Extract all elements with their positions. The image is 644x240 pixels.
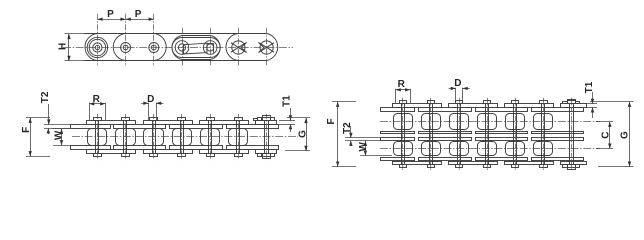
duplex end link spring clip top bbox=[568, 100, 576, 104]
dimension G single chain bbox=[287, 117, 310, 119]
svg-text:W: W bbox=[54, 130, 65, 140]
duplex pin 2 bbox=[430, 98, 432, 171]
duplex roller strand2 6 bbox=[534, 142, 553, 156]
duplex bottom outer plate 1 bbox=[393, 162, 442, 165]
dimension T2 single chain bbox=[44, 124, 88, 126]
single chain bottom inner plate 4 bbox=[227, 146, 279, 150]
svg-text:C: C bbox=[600, 131, 611, 138]
svg-text:H: H bbox=[58, 43, 69, 50]
dimension P (pitch) bbox=[97, 19, 153, 21]
duplex bottom outer plate 2 bbox=[449, 162, 498, 165]
duplex top outer plate 1 bbox=[393, 104, 442, 108]
single chain bottom inner plate 2 bbox=[114, 146, 166, 150]
duplex top outer plate 2 bbox=[449, 104, 498, 108]
single chain pin 3 bbox=[153, 114, 155, 160]
single chain roller 2 bbox=[116, 129, 136, 146]
dimension W single chain bbox=[53, 128, 89, 130]
duplex top inner plate 4 bbox=[532, 108, 584, 112]
dimension C duplex bbox=[596, 121, 613, 123]
single chain pin 7 bbox=[266, 114, 268, 160]
single chain bottom outer plate 3 bbox=[200, 150, 249, 154]
cotter pin 7 with X mark bbox=[260, 41, 273, 54]
spring clip end slot bbox=[207, 43, 214, 45]
single chain top inner plate 3 bbox=[170, 125, 223, 129]
single chain top inner plate 4 bbox=[227, 125, 279, 129]
dimension W duplex bbox=[360, 155, 392, 157]
duplex bottom inner plate 3 bbox=[476, 158, 528, 161]
connecting link pin 5 bbox=[203, 41, 217, 55]
duplex top outer plate 4 bbox=[561, 104, 587, 108]
duplex roller strand2 1 bbox=[394, 142, 413, 156]
duplex roller strand2 5 bbox=[506, 142, 525, 156]
single chain bottom inner plate 3 bbox=[170, 146, 223, 150]
svg-text:G: G bbox=[620, 131, 631, 139]
dimension D duplex bbox=[455, 88, 457, 104]
dimension T1 single chain bbox=[279, 120, 295, 122]
dimension H (plate height) bbox=[65, 33, 86, 35]
inner link cap arc right of pin 3 bbox=[154, 34, 166, 61]
duplex roller strand1 4 bbox=[478, 114, 497, 130]
duplex middle plate upper 1 bbox=[381, 132, 415, 134]
single chain roller 4 bbox=[173, 129, 192, 146]
connecting link inner outline bbox=[172, 38, 220, 58]
svg-text:P: P bbox=[135, 9, 142, 20]
top chain horizontal centerline bbox=[63, 47, 293, 49]
duplex middle plate lower 4 bbox=[532, 138, 584, 141]
duplex strand 2 centerline bbox=[380, 148, 600, 150]
single chain bottom outer plate 4 bbox=[256, 150, 277, 154]
duplex top inner plate 3 bbox=[476, 108, 528, 112]
duplex bottom inner plate 4 bbox=[532, 158, 584, 161]
duplex middle plate upper 3 bbox=[476, 132, 528, 134]
single chain pin 1 bbox=[97, 114, 99, 160]
svg-text:R: R bbox=[398, 79, 406, 90]
single chain pin 4 bbox=[181, 114, 183, 160]
dimension R single chain bbox=[89, 103, 91, 121]
duplex roller strand1 3 bbox=[450, 114, 469, 130]
single chain top inner plate 1 bbox=[71, 125, 111, 129]
duplex bottom inner plate 1 bbox=[381, 158, 415, 161]
svg-text:T1: T1 bbox=[282, 95, 293, 107]
svg-text:T2: T2 bbox=[342, 122, 353, 134]
svg-text:T2: T2 bbox=[40, 91, 51, 103]
duplex bottom outer plate 3 bbox=[505, 162, 554, 165]
svg-text:F: F bbox=[21, 127, 32, 133]
inner link cap arc left of pin 2 bbox=[113, 34, 125, 61]
duplex strand 1 centerline bbox=[380, 121, 600, 123]
connecting link outer plate stadium pins 4-5 bbox=[172, 36, 220, 60]
top chain pin 2 centerline bbox=[125, 14, 127, 67]
spring clip plate bbox=[184, 43, 208, 54]
single chain bottom outer plate 1 bbox=[87, 150, 136, 154]
svg-text:R: R bbox=[93, 94, 101, 105]
single chain roller 6 bbox=[229, 129, 248, 146]
roller at pin 1 bbox=[87, 37, 107, 57]
svg-text:D: D bbox=[147, 94, 154, 105]
duplex roller strand1 1 bbox=[394, 114, 413, 130]
duplex top inner plate 2 bbox=[419, 108, 472, 112]
duplex bottom inner plate 2 bbox=[419, 158, 472, 161]
duplex roller strand1 6 bbox=[534, 114, 553, 130]
svg-text:W: W bbox=[358, 142, 369, 152]
duplex middle plate upper 2 bbox=[419, 132, 472, 134]
dimension F single chain bbox=[26, 117, 50, 119]
svg-text:D: D bbox=[454, 78, 461, 89]
top chain pin 4 centerline bbox=[182, 28, 184, 67]
top chain pin 6 centerline bbox=[238, 28, 240, 67]
duplex pin 4 bbox=[487, 98, 489, 171]
dimension R duplex bbox=[395, 89, 397, 104]
duplex pin 5 bbox=[515, 98, 517, 171]
single chain roller 5 bbox=[201, 129, 220, 146]
single chain top outer plate 2 bbox=[144, 121, 193, 125]
left end cap arc at pin 1 bbox=[85, 34, 97, 61]
duplex middle plate lower 2 bbox=[419, 138, 472, 141]
top chain pin 1 centerline bbox=[97, 14, 99, 67]
single chain pin 6 bbox=[238, 114, 240, 160]
dimension T1 duplex bbox=[581, 103, 597, 105]
single chain end link spring clip top bbox=[263, 116, 271, 121]
cottered link cap arc left of pin 6 bbox=[226, 34, 238, 61]
chain band bottom edge bbox=[84, 60, 267, 62]
duplex roller strand2 3 bbox=[450, 142, 469, 156]
svg-text:F: F bbox=[326, 118, 337, 124]
duplex pin 7 bbox=[571, 98, 573, 171]
duplex pin 3 bbox=[459, 98, 461, 171]
duplex roller strand1 5 bbox=[506, 114, 525, 130]
top chain pin 5 centerline bbox=[210, 28, 212, 67]
duplex bottom outer plate 4 bbox=[561, 162, 587, 165]
single chain top outer plate 4 bbox=[256, 121, 277, 125]
dimension D single chain bbox=[148, 103, 150, 120]
duplex middle plate lower 3 bbox=[476, 138, 528, 141]
pin 2 bbox=[121, 43, 131, 53]
single chain pin 5 bbox=[210, 114, 212, 160]
svg-text:P: P bbox=[107, 9, 114, 20]
duplex roller strand1 2 bbox=[422, 114, 441, 130]
single chain pin 2 bbox=[125, 114, 127, 160]
single chain top inner plate 2 bbox=[114, 125, 166, 129]
dimension T2 duplex bbox=[345, 137, 392, 139]
single chain centerline bbox=[72, 136, 298, 138]
top chain pin 3 centerline bbox=[153, 14, 155, 67]
pin 3 bbox=[149, 43, 159, 53]
svg-text:G: G bbox=[297, 130, 308, 138]
duplex roller strand2 2 bbox=[422, 142, 441, 156]
top chain pin 7 centerline bbox=[266, 28, 268, 67]
dimension G duplex bbox=[590, 101, 634, 103]
single chain bottom inner plate 1 bbox=[71, 146, 111, 150]
chain band top edge bbox=[84, 33, 267, 35]
duplex middle plate upper 4 bbox=[532, 132, 584, 134]
single chain bottom outer plate 2 bbox=[144, 150, 193, 154]
duplex pin 6 bbox=[543, 98, 545, 171]
duplex top inner plate 1 bbox=[381, 108, 415, 112]
dimension F duplex bbox=[332, 101, 356, 103]
single chain end link spring clip bottom bbox=[263, 154, 271, 159]
duplex pin 1 bbox=[402, 98, 404, 171]
single chain top outer plate 1 bbox=[87, 121, 136, 125]
single chain top outer plate 3 bbox=[200, 121, 249, 125]
duplex end link spring clip bottom bbox=[568, 165, 576, 170]
duplex roller strand2 4 bbox=[478, 142, 497, 156]
duplex top outer plate 3 bbox=[505, 104, 554, 108]
duplex middle plate lower 1 bbox=[381, 138, 415, 141]
single chain roller 1 bbox=[88, 129, 107, 146]
cotter pin 6 with X mark bbox=[232, 41, 245, 54]
svg-text:T1: T1 bbox=[584, 81, 595, 93]
right end cap arc at pin 7 bbox=[267, 34, 278, 61]
connecting link pin 4 bbox=[175, 41, 189, 55]
single chain roller 3 bbox=[144, 129, 164, 146]
